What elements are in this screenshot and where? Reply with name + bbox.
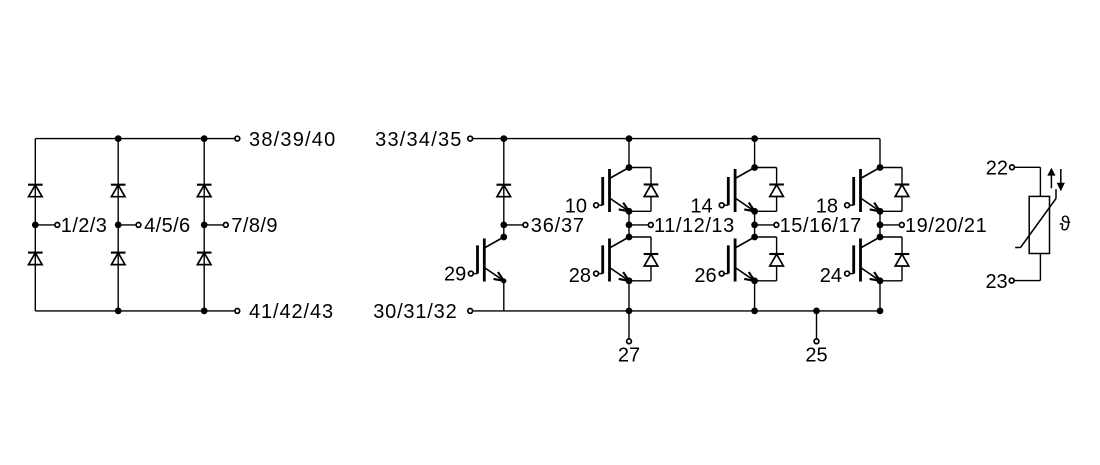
svg-text:24: 24: [820, 265, 842, 287]
diode D3B (rectifier leg 3 lower): [197, 253, 212, 265]
label 29 (chopper gate): [444, 264, 466, 286]
junction: DC- rail node phase 1: [626, 308, 633, 315]
wire: AC input stub 7/8/9: [204, 224, 223, 226]
terminal 27: [627, 339, 632, 344]
label 23: [985, 271, 1007, 293]
junction: chopper top rail node: [500, 135, 507, 142]
label 27: [618, 345, 640, 367]
junction: lower emitter node phase 3: [877, 277, 884, 284]
diode DF3 (upper freewheel) and wires: [755, 168, 784, 212]
junction: phase output node 15/16/17: [751, 222, 758, 229]
wire: emitter to phase node: [879, 211, 881, 225]
junction: DC+ rail node phase 2: [751, 135, 758, 142]
junction: lower collector node phase 3: [877, 234, 884, 241]
wire: terminal 22 to thermistor: [1014, 167, 1040, 196]
wire: AC input stub 1/2/3: [35, 224, 55, 226]
svg-text:22: 22: [986, 158, 1008, 180]
svg-text:4/5/6: 4/5/6: [144, 215, 190, 237]
diode DF1 (upper freewheel) and wires: [629, 168, 658, 212]
svg-text:33/34/35: 33/34/35: [375, 129, 462, 151]
diode D2B (rectifier leg 2 lower): [111, 253, 126, 265]
junction: top rail node: [201, 135, 208, 142]
label 24 (gate): [820, 265, 842, 287]
wire: phase 1 top leg: [628, 139, 630, 168]
junction: phase output node 11/12/13: [626, 222, 633, 229]
junction: bottom rail node: [115, 308, 122, 315]
wire: stub to terminal 19/20/21: [880, 224, 899, 226]
label 15/16/17: [780, 215, 862, 237]
label 4/5/6: [144, 215, 190, 237]
wire: rectifier bottom rail (- output): [35, 310, 235, 312]
junction: upper collector node phase 3: [877, 164, 884, 171]
junction: DC- rail node phase 2: [751, 308, 758, 315]
wire: phase 3 top leg: [879, 139, 881, 168]
diode D1T (rectifier leg 1 upper): [28, 185, 43, 197]
label 11/12/13: [654, 215, 735, 237]
svg-text:36/37: 36/37: [531, 215, 585, 237]
terminal 22: [1010, 165, 1015, 170]
junction: leg 1 AC node: [32, 222, 39, 229]
junction: upper collector node phase 2: [751, 164, 758, 171]
terminal 4/5/6: [136, 223, 141, 228]
label 33/34/35: [375, 129, 462, 151]
diode D3T (rectifier leg 3 upper): [197, 185, 212, 197]
terminal 15/16/17: [774, 223, 779, 228]
label 10 (gate): [565, 195, 587, 217]
terminal 23: [1009, 278, 1014, 283]
terminal 25: [814, 339, 819, 344]
junction: phase output node 19/20/21: [877, 222, 884, 229]
wire: stub to terminal 27: [628, 311, 630, 339]
wire: rectifier leg 1 vertical: [34, 139, 36, 311]
svg-text:15/16/17: 15/16/17: [780, 215, 862, 237]
junction: upper emitter node phase 3: [877, 208, 884, 215]
wire: stub to terminal 36/37: [504, 224, 523, 226]
wire: stub to terminal 15/16/17: [755, 224, 774, 226]
junction: leg 3 AC node: [201, 222, 208, 229]
svg-text:28: 28: [569, 265, 591, 287]
wire: AC input stub 4/5/6: [118, 224, 136, 226]
svg-text:19/20/21: 19/20/21: [905, 215, 987, 237]
label ϑ (theta): [1060, 214, 1071, 236]
junction: lower emitter node phase 1: [626, 277, 633, 284]
junction: upper emitter node phase 1: [626, 208, 633, 215]
diode D1B (rectifier leg 1 lower): [28, 253, 43, 265]
junction: lower collector node phase 1: [626, 234, 633, 241]
terminal 30/31/32: [468, 309, 473, 314]
label 19/20/21: [905, 215, 987, 237]
junction: bottom rail node: [201, 308, 208, 315]
svg-text:41/42/43: 41/42/43: [249, 301, 334, 323]
junction: chopper collector node: [500, 234, 507, 241]
svg-text:23: 23: [985, 271, 1007, 293]
wire: DC+ top rail: [473, 138, 880, 140]
wire: chopper node to collector: [503, 225, 505, 237]
terminal 38/39/40: [235, 136, 240, 141]
transistor Q7 (brake chopper IGBT, pin 29): [469, 237, 504, 282]
wire: phase 2 top leg: [754, 139, 756, 168]
transistor Q1 (upper IGBT, pin 10): [594, 168, 629, 213]
terminal 19/20/21: [899, 223, 904, 228]
label 25: [805, 345, 827, 367]
svg-text:29: 29: [444, 264, 466, 286]
svg-text:7/8/9: 7/8/9: [231, 215, 277, 237]
wire: phase node to lower collector: [754, 225, 756, 237]
label 36/37: [531, 215, 585, 237]
diode DF2 (lower freewheel) and wires: [629, 237, 658, 281]
wire: lower emitter to DC- rail: [754, 281, 756, 311]
transistor Q5 (upper IGBT, pin 18): [845, 168, 880, 213]
thermistor R1 (NTC) body: [1029, 196, 1049, 253]
diode DF5 (upper freewheel) and wires: [880, 168, 909, 212]
svg-text:27: 27: [618, 345, 640, 367]
svg-text:ϑ: ϑ: [1060, 214, 1071, 236]
junction: lower collector node phase 2: [751, 234, 758, 241]
wire: rectifier leg 3 vertical: [203, 139, 205, 311]
label 26 (gate): [694, 265, 716, 287]
svg-text:38/39/40: 38/39/40: [249, 129, 336, 151]
wire: rectifier top rail (+ output): [35, 138, 235, 140]
junction: DC- node for 25: [813, 308, 820, 315]
junction: DC- rail node phase 3: [877, 308, 884, 315]
wire: stub to terminal 25: [816, 311, 818, 339]
wire: DC- bottom rail: [473, 310, 880, 312]
transistor Q2 (lower IGBT, pin 28): [594, 237, 629, 282]
thermistor variation diagonal: [1015, 189, 1056, 247]
terminal 1/2/3: [55, 223, 60, 228]
terminal 7/8/9: [223, 223, 228, 228]
label 18 (gate): [816, 195, 838, 217]
junction: upper collector node phase 1: [626, 164, 633, 171]
wire: phase node to lower collector: [628, 225, 630, 237]
wire: stub to terminal 11/12/13: [629, 224, 648, 226]
svg-text:25: 25: [805, 345, 827, 367]
svg-text:14: 14: [690, 195, 712, 217]
wire: emitter to phase node: [628, 211, 630, 225]
junction: DC+ rail node phase 1: [626, 135, 633, 142]
wire: emitter to phase node: [754, 211, 756, 225]
junction: lower emitter node phase 2: [751, 277, 758, 284]
junction: upper emitter node phase 2: [751, 208, 758, 215]
wire: thermistor to terminal 23: [1014, 254, 1040, 281]
diode DF4 (lower freewheel) and wires: [755, 237, 784, 281]
label 41/42/43: [249, 301, 334, 323]
junction: node 36/37: [500, 222, 507, 229]
label 1/2/3: [61, 215, 107, 237]
svg-text:1/2/3: 1/2/3: [61, 215, 107, 237]
wire: phase node to lower collector: [879, 225, 881, 237]
diode D2T (rectifier leg 2 upper): [111, 185, 126, 197]
terminal 41/42/43: [235, 309, 240, 314]
arrow up (temperature): [1047, 168, 1055, 189]
svg-text:11/12/13: 11/12/13: [654, 215, 735, 237]
terminal 11/12/13: [648, 223, 653, 228]
junction: leg 2 AC node: [115, 222, 122, 229]
label 7/8/9: [231, 215, 277, 237]
wire: rectifier leg 2 vertical: [117, 139, 119, 311]
svg-text:26: 26: [694, 265, 716, 287]
diode D7 (brake chopper): [497, 185, 512, 197]
arrow down (resistance): [1057, 169, 1065, 191]
wire: chopper emitter to DC- rail: [503, 281, 505, 311]
svg-text:30/31/32: 30/31/32: [373, 301, 457, 323]
label 30/31/32: [373, 301, 457, 323]
junction: chopper emitter node: [501, 278, 506, 283]
transistor Q6 (lower IGBT, pin 24): [845, 237, 880, 282]
junction: top rail node: [115, 135, 122, 142]
terminal 36/37: [523, 223, 528, 228]
label 38/39/40: [249, 129, 336, 151]
svg-text:10: 10: [565, 195, 587, 217]
diode DF6 (lower freewheel) and wires: [880, 237, 909, 281]
transistor Q3 (upper IGBT, pin 14): [719, 168, 754, 213]
transistor Q4 (lower IGBT, pin 26): [719, 237, 754, 282]
terminal 33/34/35: [468, 136, 473, 141]
label 22: [986, 158, 1008, 180]
wire: lower emitter to DC- rail: [628, 281, 630, 311]
label 14 (gate): [690, 195, 712, 217]
wire: chopper leg upper segment: [503, 139, 505, 225]
label 28 (gate): [569, 265, 591, 287]
wire: lower emitter to DC- rail: [879, 281, 881, 311]
svg-text:18: 18: [816, 195, 838, 217]
